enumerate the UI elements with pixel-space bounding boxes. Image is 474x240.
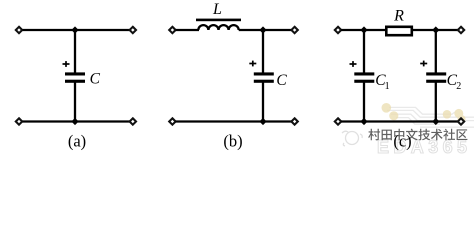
node junction b-top: [259, 26, 266, 33]
svg-text:(c): (c): [393, 132, 411, 151]
capacitor C polarity plus: [63, 63, 70, 65]
svg-text:R: R: [393, 8, 404, 25]
wire c bottom rail: [341, 120, 458, 122]
watermark solder pads: [382, 103, 466, 123]
svg-text:L: L: [212, 1, 222, 18]
node input terminal c-bottom-left: [335, 118, 341, 124]
resistor R body: [386, 27, 412, 35]
capacitor C (b) polarity plus: [249, 63, 256, 65]
node junction b-bottom: [259, 118, 266, 125]
node junction c-top-2: [432, 26, 439, 33]
node output terminal b-top-right: [291, 27, 297, 33]
svg-text:C: C: [90, 70, 101, 87]
wire a top rail: [23, 29, 130, 31]
node input terminal c-top-left: [335, 27, 341, 33]
watermark PCB traces: [387, 107, 474, 127]
watermark logo: [342, 131, 362, 146]
capacitor C2 plates: [426, 72, 446, 75]
capacitor C2 polarity plus: [420, 63, 427, 65]
node output terminal c-top-right: [458, 27, 464, 33]
wire c top rail left: [341, 29, 386, 31]
node input terminal b-top-left: [169, 27, 175, 33]
wire a bottom rail: [23, 120, 130, 122]
svg-text:2: 2: [456, 81, 461, 92]
svg-text:1: 1: [385, 81, 390, 92]
node input terminal b-bottom-left: [169, 118, 175, 124]
node junction c-bottom-2: [432, 118, 439, 125]
node junction a-bottom: [71, 118, 78, 125]
wire c cap C1 lower lead: [363, 82, 365, 121]
capacitor C1 plates: [354, 72, 374, 75]
inductor L core bar: [196, 19, 241, 22]
wire b cap upper lead: [262, 30, 264, 73]
wire b top rail left: [176, 29, 200, 31]
wire c cap C2 lower lead: [435, 82, 437, 121]
svg-text:(b): (b): [223, 132, 242, 151]
node output terminal a-bottom-right: [130, 118, 136, 124]
wire b top rail right: [239, 29, 292, 31]
wire c cap C1 upper lead: [363, 30, 365, 73]
wire b bottom rail: [176, 120, 292, 122]
capacitor C1 polarity plus: [350, 63, 357, 65]
capacitor C (b) plates: [254, 72, 274, 75]
node output terminal c-bottom-right: [458, 118, 464, 124]
svg-text:C: C: [276, 72, 287, 89]
node junction c-bottom-1: [360, 118, 367, 125]
wire a cap upper lead: [74, 30, 76, 73]
node input terminal a-bottom-left: [16, 118, 22, 124]
inductor L coil: [198, 25, 238, 30]
wire c cap C2 upper lead: [435, 30, 437, 73]
capacitor C plates: [65, 72, 85, 75]
wire c top rail right: [413, 29, 459, 31]
node output terminal a-top-right: [130, 27, 136, 33]
svg-text:(a): (a): [68, 132, 86, 151]
wire b cap lower lead: [262, 82, 264, 121]
node output terminal b-bottom-right: [291, 118, 297, 124]
watermark text Murata Chinese tech community: [368, 129, 467, 141]
node junction c-top-1: [360, 26, 367, 33]
node input terminal a-top-left: [16, 27, 22, 33]
wire a cap lower lead: [74, 82, 76, 121]
node junction a-top: [71, 26, 78, 33]
